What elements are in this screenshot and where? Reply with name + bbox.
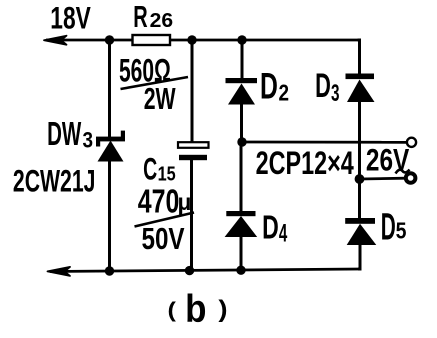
wire top rail bbox=[46, 39, 359, 42]
svg-text:(: ( bbox=[168, 298, 177, 322]
node bridge AC-1 junction bbox=[237, 137, 246, 146]
wire C15 lower segment bbox=[190, 160, 193, 271]
node junction D4 bottom bbox=[236, 266, 245, 275]
svg-text:2CP12×4: 2CP12×4 bbox=[256, 144, 354, 181]
wire AC terminal 2 bbox=[360, 177, 406, 181]
svg-text:b: b bbox=[185, 287, 206, 330]
zener diode DW3 bbox=[96, 131, 125, 162]
label D4 bbox=[262, 209, 288, 247]
wire D2 upper segment bbox=[241, 40, 244, 79]
wire D3 lower segment (crosses AC wire, no dot) bbox=[358, 101, 361, 179]
wire DW3 lower segment bbox=[108, 158, 111, 271]
svg-text:5: 5 bbox=[396, 218, 407, 244]
svg-text:3: 3 bbox=[83, 128, 94, 153]
svg-text:2: 2 bbox=[279, 81, 290, 106]
wire C15 upper segment bbox=[191, 40, 194, 143]
wire D4 lower segment bbox=[240, 236, 243, 271]
label C15 bbox=[143, 151, 176, 187]
svg-text:2CW21J: 2CW21J bbox=[13, 163, 96, 198]
label DW3 bbox=[47, 115, 93, 153]
svg-text:18V: 18V bbox=[50, 0, 91, 35]
node bridge AC-2 junction bbox=[355, 174, 365, 184]
resistor R26 bbox=[133, 35, 171, 45]
node junction DW3 bottom bbox=[105, 266, 114, 275]
svg-text:15: 15 bbox=[158, 163, 176, 185]
node junction C15 top bbox=[187, 35, 196, 44]
diode D4 bbox=[225, 211, 258, 237]
diode D5 bbox=[345, 218, 376, 245]
svg-text:μ: μ bbox=[178, 189, 192, 215]
svg-text:D: D bbox=[262, 209, 279, 246]
label D3 bbox=[315, 67, 339, 107]
fraction line C15 value bbox=[135, 213, 195, 227]
label D2 bbox=[260, 66, 289, 107]
wire top-right corner down to D3 bbox=[358, 40, 360, 75]
svg-text:): ) bbox=[218, 297, 227, 323]
node junction DW3 top bbox=[105, 35, 114, 44]
svg-text:26: 26 bbox=[150, 9, 174, 32]
label AC tilde under 26V bbox=[396, 170, 410, 174]
diode D2 bbox=[226, 78, 258, 105]
diode D3 bbox=[346, 74, 375, 103]
capacitor C15 bbox=[178, 142, 209, 160]
label D5 bbox=[381, 206, 407, 248]
svg-text:50V: 50V bbox=[142, 221, 186, 255]
arrow bottom-left output bbox=[48, 267, 71, 276]
svg-text:C: C bbox=[143, 151, 157, 187]
wire bottom rail bbox=[50, 269, 360, 272]
svg-text:470: 470 bbox=[138, 183, 180, 220]
label 470μ bbox=[138, 183, 192, 220]
fraction line R26 value bbox=[121, 77, 189, 89]
node junction C15 bottom bbox=[185, 266, 194, 275]
svg-text:D: D bbox=[260, 66, 278, 107]
node junction D2 top bbox=[237, 35, 246, 44]
arrow top-left output bbox=[44, 36, 67, 45]
caption (b) bbox=[168, 287, 228, 330]
svg-text:4: 4 bbox=[279, 220, 288, 248]
svg-text:R: R bbox=[133, 1, 148, 34]
svg-text:D: D bbox=[315, 67, 331, 105]
svg-text:3: 3 bbox=[331, 81, 340, 107]
wire D4 upper segment bbox=[240, 142, 243, 212]
svg-text:2W: 2W bbox=[144, 81, 176, 116]
wire DW3 upper segment bbox=[108, 40, 111, 138]
svg-text:D: D bbox=[381, 206, 396, 248]
terminal AC-1 (open circle) bbox=[407, 138, 416, 147]
wire D2 lower segment bbox=[240, 104, 243, 142]
terminal AC-2 (open circle) bbox=[406, 173, 416, 183]
wire AC terminal 1 bbox=[242, 141, 407, 144]
wire D5 upper segment bbox=[358, 179, 361, 219]
wire D5 lower segment to bottom-right corner bbox=[358, 244, 360, 269]
label R26 bbox=[133, 1, 173, 34]
svg-text:DW: DW bbox=[47, 115, 82, 152]
